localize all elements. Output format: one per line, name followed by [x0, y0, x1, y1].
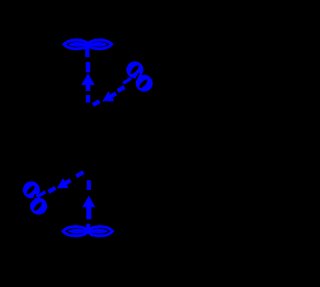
catenane bottom: left ring inner strand lens: [68, 229, 87, 234]
upper diagonal dashed arrow: dash 1: [92, 99, 101, 106]
figure-8 top-right: waist crossing gap: [136, 73, 139, 79]
lower vertical dashed arrow: dash 1: [87, 180, 91, 190]
catenane bottom: right ring outline: [88, 227, 113, 236]
upper diagonal dashed arrow: arrowhead glyph: [99, 88, 119, 106]
figure-8 bottom-left: tail: [37, 192, 45, 197]
catenane top: left ring inner strand lens: [68, 42, 87, 47]
catenane top: junction crossing X: [84, 43, 93, 48]
lower diagonal dashed arrow: dash 1: [75, 170, 84, 178]
figure-8 bottom-left: upper ring: [23, 181, 40, 198]
catenane top: left ring outline: [64, 40, 89, 49]
lower vertical dashed arrow: arrowhead glyph: [82, 196, 95, 220]
lower diagonal dashed arrow: arrowhead glyph: [54, 175, 74, 193]
catenane top: tail: [85, 47, 89, 57]
catenane bottom: junction top stub: [86, 224, 90, 230]
catenane bottom: right ring inner strand lens: [89, 229, 108, 234]
catenane bottom: junction crossing X: [84, 227, 94, 236]
upper vertical dashed arrow: dash 2: [86, 95, 90, 103]
catenane bottom: left ring outline: [63, 227, 88, 236]
figure-8 top-right: upper ring: [126, 61, 143, 78]
catenane top: right ring inner strand lens: [89, 42, 108, 47]
figure-8 bottom-left: lower ring: [30, 198, 47, 215]
figure-8 top-right: lower ring: [136, 75, 153, 92]
upper diagonal dashed arrow: dash 2: [117, 85, 126, 93]
upper vertical dashed arrow: arrowhead glyph: [81, 73, 95, 91]
figure-8 top-right: tail: [123, 78, 131, 83]
lower diagonal dashed arrow: dash 2: [47, 186, 56, 194]
catenane top: right ring outline: [87, 40, 112, 49]
upper vertical dashed arrow: dash 1: [86, 62, 90, 73]
figure-8 bottom-left: waist crossing gap: [33, 194, 36, 200]
